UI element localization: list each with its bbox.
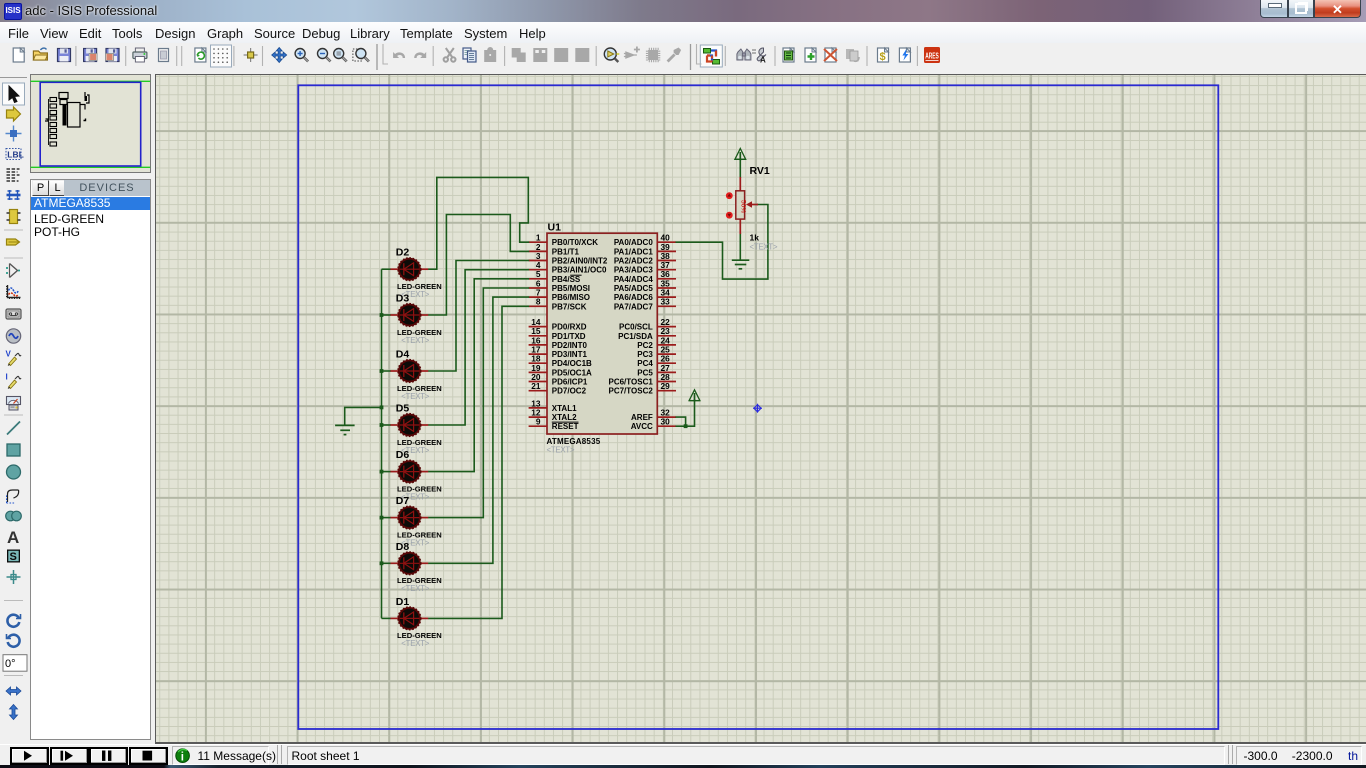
- wire: LED anode riser x=465.1: [428, 270, 529, 425]
- U1 pin 27 PC5: [637, 363, 676, 378]
- U1 pin 30 AVCC: [631, 417, 676, 432]
- wire: RV1 bottom to ground: [739, 233, 741, 260]
- wire: rail to LED at y=471.6: [382, 471, 391, 473]
- svg-text:A: A: [7, 528, 19, 547]
- wire: rail to LED at y=315.0: [382, 314, 391, 316]
- svg-text:ARES: ARES: [925, 52, 939, 61]
- overview minimap: [31, 81, 151, 167]
- svg-text:i: i: [181, 751, 184, 763]
- svg-text:I: I: [6, 373, 8, 382]
- U1 pin 37 PA3/ADC3: [614, 260, 676, 275]
- svg-text:th: th: [1348, 749, 1358, 763]
- origin marker (blue): [753, 404, 762, 413]
- U1 pin 40 PA0/ADC0: [614, 233, 676, 248]
- U1 pin 39 PA1/ADC1: [614, 242, 676, 257]
- svg-text:A: A: [760, 56, 766, 65]
- junction dots: [380, 313, 384, 317]
- wire: cathode rail left of LEDs: [381, 269, 383, 618]
- LED D1 LED-GREEN: [390, 596, 442, 648]
- svg-text:LBL: LBL: [7, 150, 24, 160]
- LED D6 LED-GREEN: [390, 449, 442, 501]
- U1 pin 5 PB4/SS: [529, 269, 581, 284]
- ground (LED rail): [335, 425, 355, 434]
- toolbar: [0, 43, 1366, 71]
- wire: rail to LED at y=269.2: [382, 268, 391, 270]
- wire: rail to LED at y=517.6: [382, 517, 391, 519]
- U1 pin 15 PD1/TXD: [529, 326, 586, 341]
- wire: D2 anode to U1 pin1: [428, 177, 529, 269]
- wire: LED anode riser x=456.0: [428, 261, 529, 372]
- RV1 increment button: [726, 192, 733, 199]
- U1 pin 7 PB6/MISO: [529, 288, 590, 303]
- wire: ground tap: [345, 407, 382, 424]
- power terminal above RV1: [735, 149, 746, 161]
- svg-text:V: V: [6, 350, 12, 359]
- ground (RV1): [732, 260, 750, 269]
- potentiometer RV1 1k POT-HG: [726, 165, 778, 252]
- U1 pin 1 PB0/T0/XCK: [529, 233, 599, 248]
- U1 pin 35 PA5/ADC5: [614, 278, 676, 293]
- U1 pin 25 PC3: [637, 345, 676, 360]
- wire: D3 anode to U1 pin2: [428, 215, 529, 316]
- U1 pin 33 PA7/ADC7: [614, 297, 676, 312]
- U1 pin 32 AREF: [631, 408, 676, 423]
- wire: U1 pin40 PA0 to RV1 wiper: [676, 205, 768, 280]
- U1 pin 19 PD5/OC1A: [529, 363, 592, 378]
- U1 pin 21 PD7/OC2: [529, 381, 587, 396]
- message info icon: [176, 749, 190, 763]
- LED D3 LED-GREEN: [390, 293, 442, 345]
- wire: LED anode riser x=502.0: [428, 306, 529, 618]
- U1 pin 16 PD2/INT0: [529, 335, 588, 350]
- U1 pin 6 PB5/MOSI: [529, 278, 590, 293]
- svg-text:11 Message(s): 11 Message(s): [198, 749, 276, 763]
- U1 pin 38 PA2/ADC2: [614, 251, 676, 266]
- U1 pin 24 PC2: [637, 335, 676, 350]
- left panel: [28, 71, 154, 746]
- svg-text:S: S: [10, 551, 17, 563]
- RV1 decrement button: [726, 212, 733, 219]
- U1 pin 14 PD0/RXD: [529, 317, 587, 332]
- U1 pin 4 PB3/AIN1/OC0: [529, 260, 607, 275]
- bottom bar: [0, 744, 1366, 766]
- U1 pin 26 PC4: [637, 354, 676, 369]
- window title bar: [0, 0, 1366, 22]
- U1 pin 20 PD6/ICP1: [529, 372, 588, 387]
- svg-text:-300.0: -300.0: [1243, 749, 1277, 763]
- U1 pin 22 PC0/SCL: [619, 317, 676, 332]
- U1 pin 2 PB1/T1: [529, 242, 580, 257]
- wire: RV1 top to power: [739, 160, 741, 178]
- left icon strip: [0, 71, 28, 738]
- U1 pin 23 PC1/SDA: [618, 326, 676, 341]
- wire: LED anode riser x=474.2: [428, 279, 529, 472]
- U1 pin 29 PC7/TOSC2: [608, 381, 676, 396]
- LED D4 LED-GREEN: [390, 349, 442, 401]
- U1 pin 13 XTAL1: [529, 398, 577, 413]
- sim stop button: [143, 751, 153, 761]
- LED D8 LED-GREEN: [390, 541, 442, 593]
- svg-text:-2300.0: -2300.0: [1292, 749, 1333, 763]
- svg-text:$: $: [880, 51, 886, 63]
- schematic canvas: [155, 74, 1366, 743]
- wire: LED anode riser x=492.9: [428, 297, 529, 563]
- U1 pin 3 PB2/AIN0/INT2: [529, 251, 608, 266]
- LED D2 LED-GREEN: [390, 247, 442, 299]
- LED D7 LED-GREEN: [390, 495, 442, 547]
- svg-text:0°: 0°: [5, 658, 16, 670]
- menu bar: [0, 22, 1366, 43]
- sim play button: [24, 751, 32, 761]
- U1 pin 36 PA4/ADC4: [614, 269, 676, 284]
- wire: AREF to AVCC net: [676, 417, 686, 426]
- wire: rail to LED at y=425.0: [382, 424, 391, 426]
- U1 pin 34 PA6/ADC6: [614, 288, 676, 303]
- sheet border: [298, 85, 1218, 729]
- wire: LED anode riser x=483.3: [428, 288, 529, 518]
- sim step button: [61, 751, 64, 761]
- LED D5 LED-GREEN: [390, 403, 442, 455]
- sim pause button: [102, 751, 105, 761]
- wire: rail to LED at y=563.3: [382, 562, 391, 564]
- U1 pin 9 RESET: [529, 417, 579, 432]
- power terminal at AVCC: [689, 390, 700, 402]
- U1 pin 18 PD4/OC1B: [529, 354, 592, 369]
- wire: rail to LED at y=618.4: [382, 617, 391, 619]
- U1 pin 12 XTAL2: [529, 408, 577, 423]
- U1 pin 8 PB7/SCK: [529, 297, 587, 312]
- U1 pin 28 PC6/TOSC1: [608, 372, 676, 387]
- wire: AVCC to power: [676, 399, 695, 426]
- U1 pin 17 PD3/INT1: [529, 345, 588, 360]
- wire: rail to LED at y=371.0: [382, 370, 391, 372]
- IC U1 ATMEGA8535: [529, 222, 676, 455]
